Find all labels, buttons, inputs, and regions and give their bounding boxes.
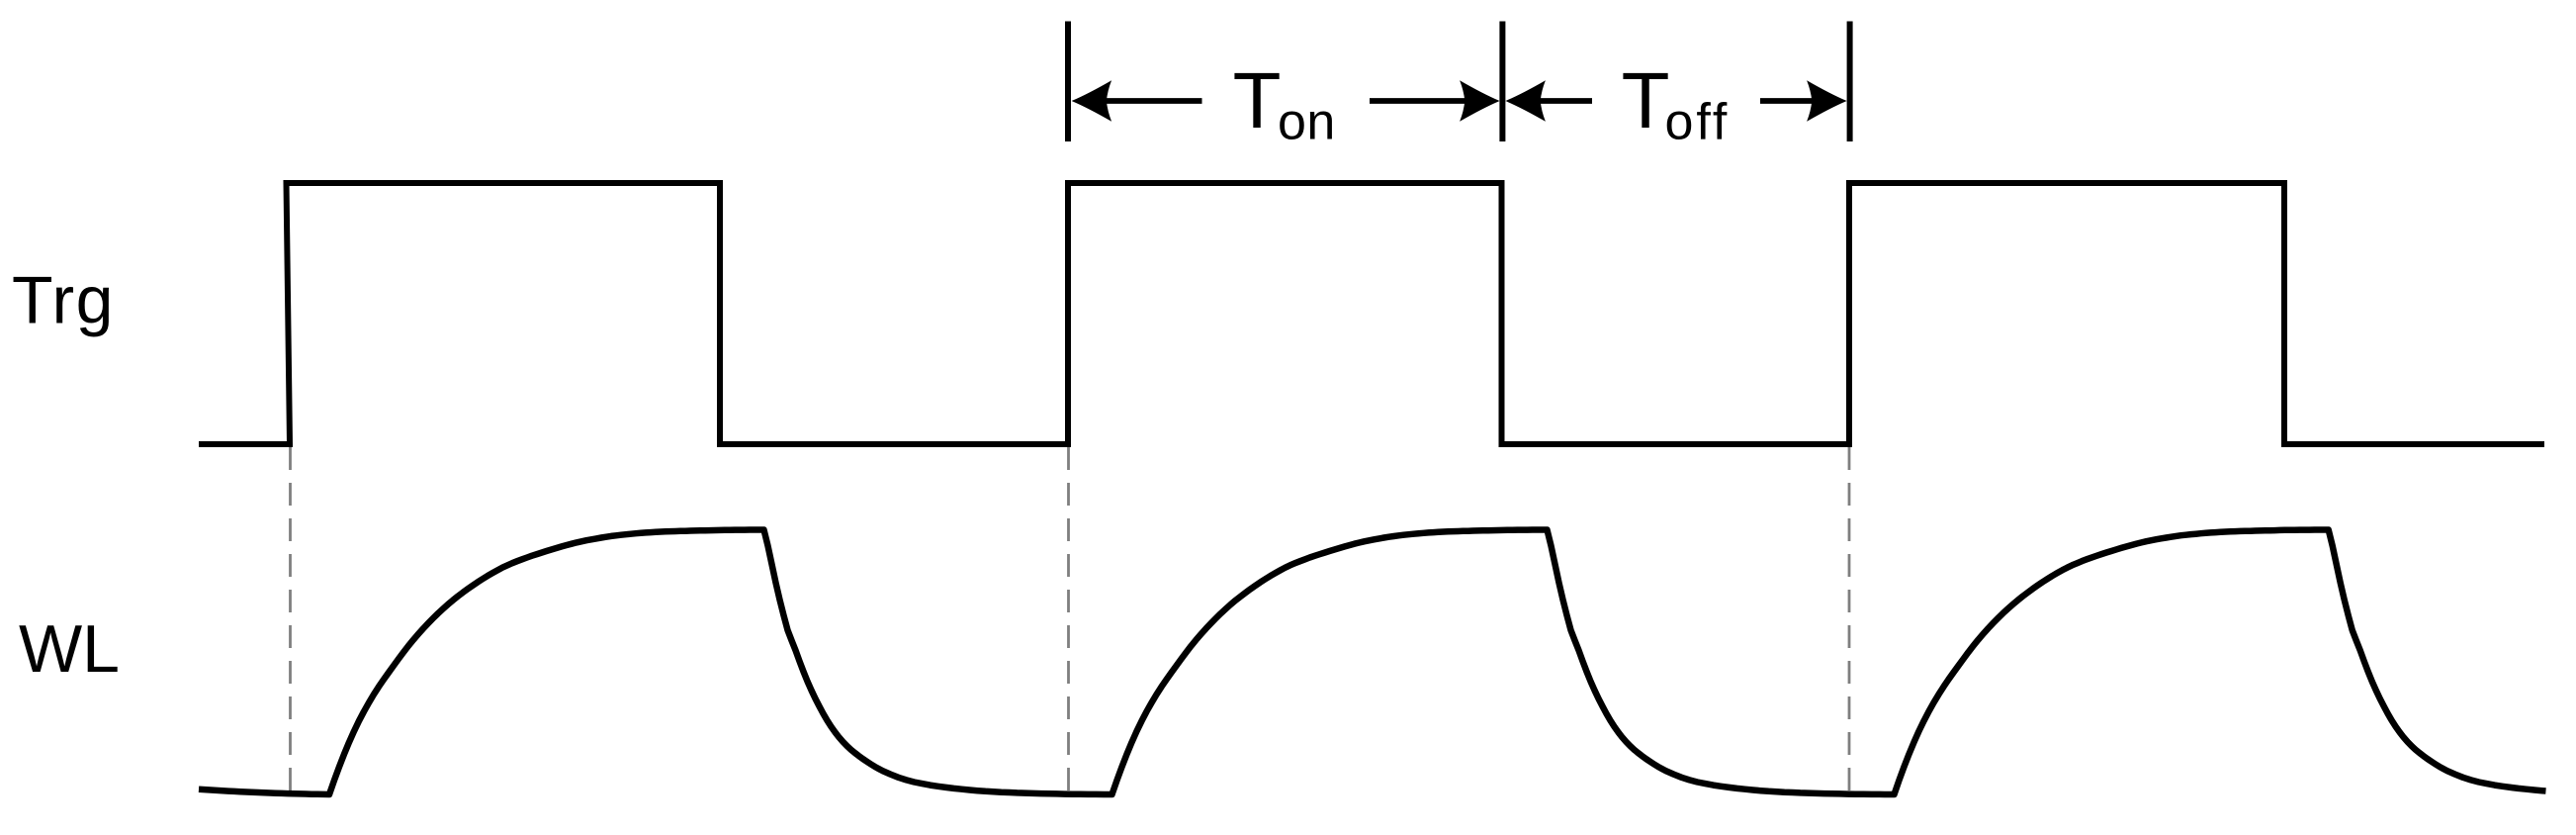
Trg square wave [199,183,2544,444]
svg-text:off: off [1665,94,1731,151]
svg-text:on: on [1278,94,1336,151]
tick mark 3 [1847,22,1853,142]
tick mark 1 [1065,22,1071,142]
dashed line 2 [1067,447,1070,799]
dashed line 3 [1848,447,1851,799]
label T_on [1233,56,1336,151]
svg-text:T: T [1233,56,1282,144]
WL waveform [199,530,2546,795]
dashed line 1 [289,447,292,799]
tick mark 2 [1499,22,1505,142]
svg-text:Trg: Trg [12,263,115,338]
label T_off [1622,56,1731,151]
T_off left arrow [1505,80,1592,122]
T_on left arrow [1072,80,1202,122]
svg-text:WL: WL [19,611,120,687]
T_off right arrow [1760,80,1847,122]
svg-text:T: T [1622,56,1670,144]
T_on right arrow [1370,80,1500,122]
